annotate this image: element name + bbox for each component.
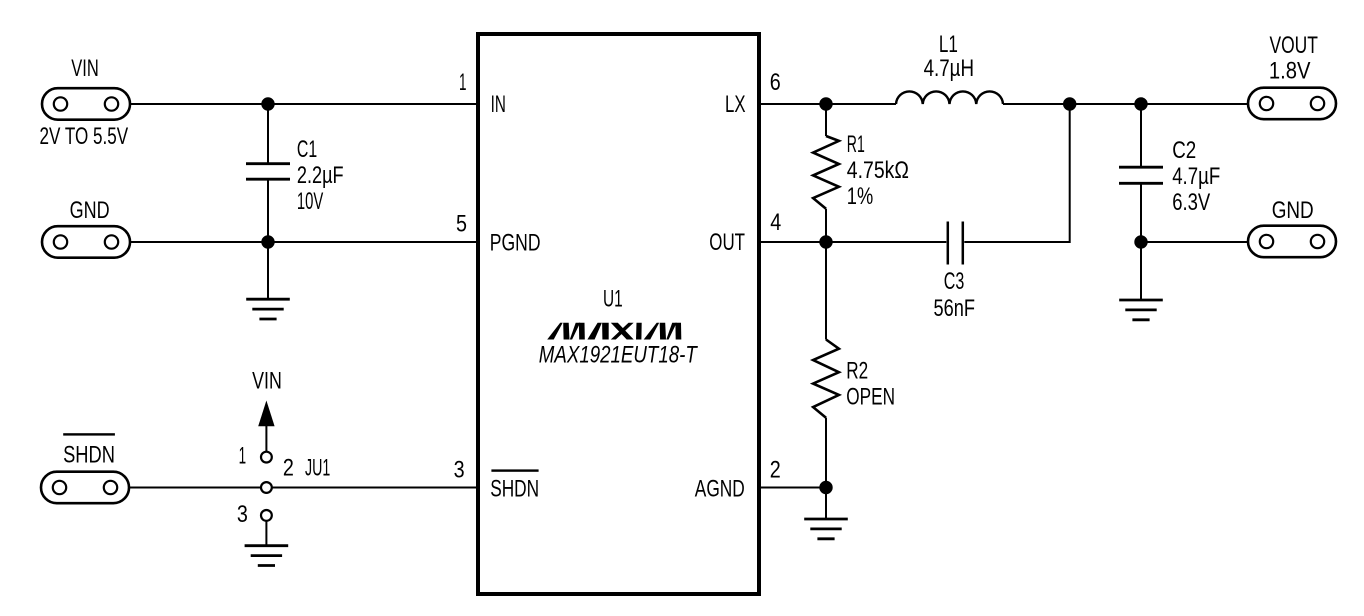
terminal GND left pad [42, 226, 130, 258]
node AGND junction [819, 481, 832, 494]
svg-text:4.7µH: 4.7µH [924, 55, 974, 82]
ground at JU1 [245, 546, 289, 566]
svg-text:JU1: JU1 [305, 454, 330, 481]
wire node VOUT to C2 top [1140, 104, 1142, 167]
svg-text:56nF: 56nF [933, 295, 975, 322]
wire node OUT to R2 top [825, 242, 827, 340]
terminal VIN pad [42, 88, 130, 120]
node OUT junction [819, 235, 832, 248]
maxim logo [547, 323, 681, 340]
svg-text:SHDN: SHDN [63, 441, 115, 468]
wire AGND node to ground [825, 488, 827, 520]
svg-text:6.3V: 6.3V [1172, 189, 1210, 216]
wire C3 to corner node [964, 104, 1069, 242]
svg-text:C1: C1 [297, 136, 317, 163]
overline SHDN pin [491, 469, 538, 471]
svg-text:VOUT: VOUT [1269, 32, 1318, 59]
svg-text:4: 4 [770, 209, 781, 236]
wire pin 4 OUT to C3 [759, 241, 946, 243]
svg-text:6: 6 [770, 69, 781, 96]
svg-text:GND: GND [1272, 197, 1314, 224]
wire node IN to C1 top [267, 104, 269, 163]
svg-text:C2: C2 [1172, 137, 1196, 164]
svg-text:2V TO 5.5V: 2V TO 5.5V [40, 123, 129, 150]
capacitor C1 [246, 164, 290, 180]
ground at AGND [804, 519, 848, 539]
wire pin 2 AGND [759, 487, 826, 489]
capacitor C2 [1119, 167, 1163, 183]
wire R2 bottom to node AGND [825, 418, 827, 488]
svg-text:VIN: VIN [71, 55, 99, 82]
node PGND junction [261, 235, 274, 248]
svg-text:OPEN: OPEN [846, 384, 895, 411]
node IN junction [261, 97, 274, 110]
inductor L1 [896, 91, 1003, 104]
svg-text:10V: 10V [297, 188, 324, 215]
svg-text:3: 3 [237, 501, 248, 528]
wire C2 node to ground [1140, 242, 1142, 300]
svg-text:4.75kΩ: 4.75kΩ [847, 157, 909, 184]
svg-text:R1: R1 [847, 131, 865, 158]
ground at C2 [1119, 300, 1163, 320]
svg-text:C3: C3 [944, 268, 965, 295]
node C2 top junction [1134, 97, 1147, 110]
svg-text:1: 1 [459, 69, 467, 96]
jumper JU1 pin 2 [261, 482, 272, 493]
wire pin 6 LX to inductor [759, 103, 896, 105]
jumper JU1 pin 3 [261, 510, 272, 521]
svg-text:AGND: AGND [695, 476, 745, 503]
node LX junction [819, 97, 832, 110]
svg-text:1%: 1% [847, 183, 873, 210]
overline SHDN terminal [63, 433, 115, 435]
wire VIN arrow stem JU1 [265, 425, 267, 452]
capacitor C3 [948, 222, 963, 265]
wire VIN to pin 1 IN [130, 103, 478, 105]
ground at C1 [246, 299, 290, 319]
wire node LX to R1 top [825, 104, 827, 136]
svg-text:GND: GND [70, 197, 110, 224]
terminal SHDN pad [41, 472, 129, 504]
jumper JU1 pin 1 [261, 452, 272, 463]
wire SHDN to pin 3 [129, 487, 478, 489]
svg-text:2: 2 [770, 457, 781, 484]
resistor R1 [813, 136, 839, 209]
wire node PGND to ground [267, 242, 269, 299]
svg-text:4.7µF: 4.7µF [1172, 163, 1220, 190]
svg-text:VIN: VIN [252, 368, 282, 395]
wire C2 bottom to node GND [1140, 184, 1142, 242]
svg-text:OUT: OUT [709, 229, 745, 256]
svg-text:SHDN: SHDN [490, 476, 539, 503]
svg-text:1: 1 [239, 442, 247, 469]
svg-text:IN: IN [491, 91, 506, 118]
svg-text:1.8V: 1.8V [1269, 58, 1311, 85]
svg-text:MAX1921EUT18-T: MAX1921EUT18-T [539, 341, 699, 368]
svg-text:2.2µF: 2.2µF [297, 162, 344, 189]
svg-text:L1: L1 [939, 31, 958, 58]
jumper JU1 arrow to VIN [258, 401, 274, 427]
svg-text:LX: LX [725, 91, 746, 118]
node C2 bottom junction [1134, 235, 1147, 248]
svg-text:5: 5 [456, 211, 467, 238]
resistor R2 [813, 340, 839, 418]
op-amp U1 IC box MAX1921 [478, 34, 759, 594]
node L1 output junction [1063, 97, 1076, 110]
wire JU1 pin3 to ground [265, 521, 267, 546]
wire inductor to VOUT [1003, 103, 1248, 105]
wire node to GND terminal [1141, 241, 1248, 243]
svg-text:R2: R2 [846, 358, 868, 385]
wire C1 bottom to node PGND [267, 180, 269, 242]
svg-text:PGND: PGND [490, 229, 541, 256]
wire R1 bottom to node OUT [825, 209, 827, 242]
terminal GND right pad [1248, 226, 1336, 258]
wire GND to pin 5 PGND [130, 241, 478, 243]
svg-text:U1: U1 [603, 286, 623, 313]
svg-text:2: 2 [283, 454, 294, 481]
svg-text:3: 3 [454, 456, 465, 483]
terminal VOUT pad [1248, 88, 1336, 120]
